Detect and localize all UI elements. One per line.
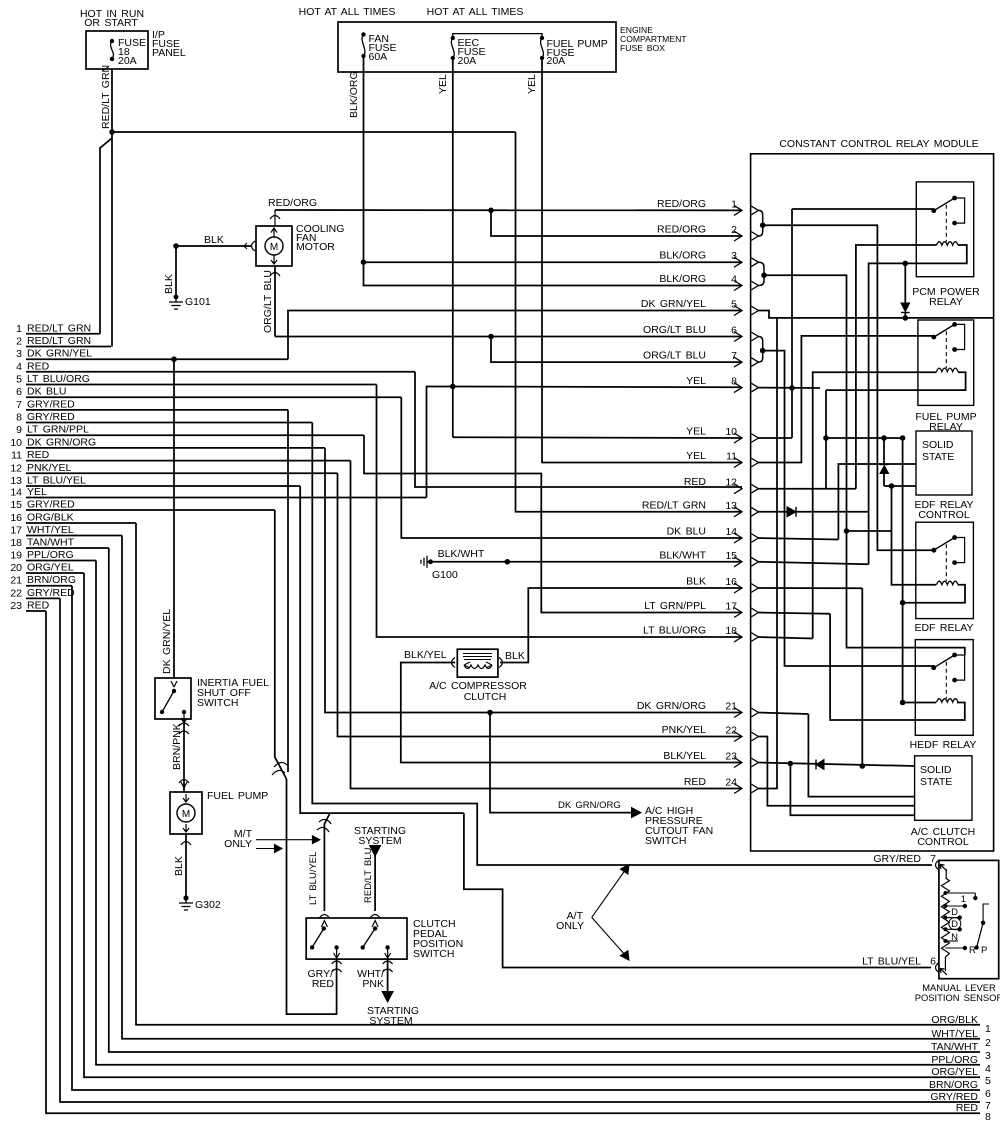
cooling fan motor M1	[256, 226, 292, 266]
wire BLK a/c clutch to CCRM pin 16	[500, 588, 742, 663]
svg-text:WHT/YEL: WHT/YEL	[931, 1028, 978, 1040]
pin 2 RED/ORG arrow	[734, 231, 742, 241]
wire PNK/YEL row12 to CCRM pin 22	[338, 473, 743, 736]
wire GRY/RED row22 to bottom output 7	[60, 598, 980, 1102]
svg-text:SYSTEM: SYSTEM	[369, 1015, 412, 1027]
sensor taps and contacts	[943, 891, 947, 895]
svg-text:BLK/ORG: BLK/ORG	[659, 273, 706, 285]
svg-text:CONTROL: CONTROL	[917, 836, 968, 848]
wire YEL from EEC fuse down	[452, 58, 454, 387]
svg-text:YEL: YEL	[686, 450, 706, 462]
wire break GRY/RED M/T connector	[274, 762, 287, 767]
sensor selector arm	[974, 945, 978, 949]
pin 18 LT BLU/ORG arrow	[734, 632, 742, 642]
svg-text:5: 5	[16, 374, 22, 386]
wire BLK/WHT G100 to CCRM pin 15	[431, 561, 742, 563]
svg-text:DK GRN/ORG: DK GRN/ORG	[27, 436, 96, 448]
svg-text:10: 10	[725, 426, 737, 438]
svg-text:SWITCH: SWITCH	[197, 697, 238, 709]
svg-text:5: 5	[985, 1075, 991, 1087]
svg-text:8: 8	[731, 376, 737, 388]
node junction pin 23 ground riser	[860, 763, 866, 769]
svg-text:RED: RED	[956, 1102, 979, 1114]
wire BLK/YEL to CCRM pin 23	[401, 663, 742, 763]
node junction RED/LT GRN	[109, 129, 115, 135]
wire BLK/ORG from fan fuse down	[363, 56, 365, 262]
svg-text:10: 10	[10, 437, 22, 449]
pin 21 DK GRN/ORG arrow	[734, 708, 742, 718]
wire branch to EDF relay coil	[847, 530, 892, 532]
wire ORG/LT BLU to CCRM pin 6	[275, 336, 742, 338]
node junction YEL EEC	[450, 384, 456, 390]
wire pin 13 and pin 15 riser to PCM coil return	[869, 245, 967, 564]
svg-text:1: 1	[961, 894, 966, 905]
svg-text:DK GRN/ORG: DK GRN/ORG	[637, 700, 706, 712]
wire pin 5 DK GRN/YEL bus	[759, 311, 994, 318]
svg-text:LT BLU/ORG: LT BLU/ORG	[643, 625, 706, 637]
diode CR3 EDF control feed	[883, 438, 885, 465]
pin 22 PNK/YEL arrow	[734, 732, 742, 742]
wire RED row4 to CCRM pin 12	[415, 372, 742, 487]
svg-text:ORG/BLK: ORG/BLK	[27, 512, 74, 524]
svg-text:M: M	[182, 809, 190, 820]
svg-text:BLK: BLK	[505, 650, 525, 662]
wire BLK/ORG pin 3 line	[364, 261, 743, 263]
svg-text:ORG/LT BLU: ORG/LT BLU	[262, 270, 274, 333]
svg-text:6: 6	[985, 1088, 991, 1100]
svg-text:20A: 20A	[547, 55, 566, 67]
wire branch to connector row 1	[100, 138, 112, 334]
wire DK GRN/ORG to A/C high pressure cutout fan switch	[490, 713, 556, 813]
svg-text:13: 13	[725, 500, 737, 512]
node splice BLK/WHT	[505, 559, 511, 565]
svg-text:RED/ORG: RED/ORG	[657, 198, 706, 210]
svg-text:LT BLU/YEL: LT BLU/YEL	[27, 475, 86, 487]
svg-text:HOT AT ALL TIMES: HOT AT ALL TIMES	[299, 6, 396, 18]
svg-text:DK GRN/YEL: DK GRN/YEL	[161, 609, 173, 674]
svg-text:17: 17	[725, 601, 737, 613]
svg-text:GRY/RED: GRY/RED	[27, 398, 75, 410]
svg-text:13: 13	[10, 475, 22, 487]
wire pin 23 branch to A/C clutch control lower input	[790, 764, 914, 816]
svg-text:6: 6	[930, 956, 936, 968]
svg-text:18: 18	[725, 625, 737, 637]
node junction EDF relay common	[932, 548, 937, 553]
wire BLK down to ground	[175, 246, 177, 296]
node junction pins 6-7	[760, 348, 766, 354]
svg-text:20: 20	[10, 562, 22, 574]
pin 10 YEL arrow	[734, 433, 742, 443]
svg-text:STATE: STATE	[922, 451, 954, 463]
svg-text:ORG/YEL: ORG/YEL	[931, 1066, 978, 1078]
svg-text:RED/LT GRN: RED/LT GRN	[27, 322, 91, 334]
wire YEL EEC to CCRM pin 8	[453, 386, 742, 389]
wire GRY/RED row7 down to M/T break	[287, 410, 289, 772]
relay K1 PCM POWER RELAY	[916, 182, 973, 277]
svg-text:11: 11	[11, 450, 22, 462]
wire YEL from fuel pump fuse down to pin 11 level	[542, 58, 742, 463]
svg-text:TAN/WHT: TAN/WHT	[27, 537, 75, 549]
svg-text:STATE: STATE	[920, 776, 952, 788]
wire pin 24 riser	[759, 318, 778, 789]
svg-text:DK BLU: DK BLU	[27, 386, 66, 398]
node junction diode branch	[881, 435, 887, 441]
pin 7 ORG/LT BLU arrow	[734, 357, 742, 367]
wire resistor bottom to pin 6 entry	[944, 957, 946, 971]
svg-text:5: 5	[731, 299, 737, 311]
wire pins 3-4 bracket	[759, 262, 765, 285]
wire BLK/ORG trunk down to HEDF contact	[764, 275, 965, 655]
svg-text:DK GRN/YEL: DK GRN/YEL	[641, 298, 706, 310]
svg-text:BLK/ORG: BLK/ORG	[659, 250, 706, 262]
I/P fuse panel box	[86, 31, 148, 69]
diode CR4 on pin 23 line	[816, 760, 824, 770]
svg-text:RED: RED	[684, 476, 707, 488]
svg-text:YEL: YEL	[27, 486, 47, 498]
node junction pins 1-2	[760, 222, 766, 228]
pin 3 BLK/ORG arrow	[734, 257, 742, 267]
wire DK GRN/YEL row3 up to CCRM pin 5	[288, 311, 742, 360]
svg-text:PPL/ORG: PPL/ORG	[931, 1054, 978, 1066]
node junction ORG/LT BLU	[488, 334, 494, 340]
wire LT BLU/YEL branch to clutch pedal switch	[324, 813, 330, 911]
svg-text:RED: RED	[27, 360, 50, 372]
wire pin 16 interior to A/C clutch control	[759, 587, 863, 589]
fuse EEC FUSE 20A	[451, 36, 455, 40]
wire LT GRN/PPL row9 to CCRM pin 17	[364, 435, 742, 612]
wire fuel pump relay coil return	[826, 372, 966, 390]
svg-text:RED: RED	[684, 776, 707, 788]
svg-text:N: N	[951, 932, 958, 943]
svg-text:SOLID: SOLID	[920, 764, 952, 776]
wire pin 22 to A/C clutch control	[759, 737, 915, 806]
pin 23 BLK/YEL arrow	[734, 758, 742, 768]
pin 14 DK BLU arrow	[734, 533, 742, 543]
svg-text:PPL/ORG: PPL/ORG	[27, 549, 74, 561]
fuse Fuse-18 20A symbol	[110, 39, 114, 43]
wire YEL EEC down to pin 10 level	[452, 387, 454, 438]
wire pin 23 BLK/YEL to A/C clutch control	[759, 763, 915, 767]
wire LT BLU/YEL row13 down and right	[300, 486, 464, 813]
svg-text:12: 12	[725, 477, 737, 489]
wire DK GRN/ORG row10 to CCRM pin 21	[325, 448, 742, 713]
wire PCM relay common from pins 8 and 10	[792, 208, 934, 210]
svg-text:ONLY: ONLY	[556, 920, 584, 932]
svg-text:BLK/YEL: BLK/YEL	[404, 649, 447, 661]
wire RED/LT GRN from fuse 18 down to junction	[111, 69, 113, 132]
node junction BLK/ORG pin3	[361, 259, 367, 265]
a/c compressor clutch L1	[457, 649, 498, 677]
wire BLK/ORG down to pin 4 level then right	[364, 262, 743, 285]
wire TAN/WHT row18 to bottom output 3	[109, 548, 980, 1052]
wire ORG/LT BLU branch to pin 7	[491, 337, 742, 363]
wire RED/ORG trunk to EDF relay common	[763, 225, 934, 550]
wire LT BLU/ORG row5 to CCRM pin 18	[377, 385, 743, 638]
svg-text:GRY/RED: GRY/RED	[27, 411, 75, 423]
node junction HEDF relay common	[931, 665, 936, 670]
node junction coil supply bus	[823, 435, 829, 441]
svg-text:3: 3	[985, 1050, 991, 1062]
svg-text:YEL: YEL	[526, 74, 538, 94]
svg-text:ORG/LT BLU: ORG/LT BLU	[643, 324, 706, 336]
svg-text:LT BLU/ORG: LT BLU/ORG	[27, 373, 90, 385]
svg-text:3: 3	[16, 348, 22, 360]
ground G101	[174, 295, 179, 300]
svg-text:LT GRN/PPL: LT GRN/PPL	[27, 424, 89, 436]
wire RED/LT GRN riser down to pin 13 level	[516, 132, 743, 512]
fuel pump M2	[181, 782, 187, 788]
arrow M/T to LT BLU/YEL wire	[256, 839, 314, 841]
svg-text:60A: 60A	[369, 51, 388, 63]
wire pin 10 YEL interior	[759, 437, 793, 439]
svg-text:8: 8	[985, 1111, 991, 1123]
solid state A/C clutch control U3	[915, 756, 972, 821]
ground G100	[421, 556, 427, 568]
node junction pin 8 PCM common	[789, 385, 795, 391]
svg-text:RED/ORG: RED/ORG	[657, 224, 706, 236]
pin 13 RED/LT GRN arrow	[734, 507, 742, 517]
svg-text:BRN/ORG: BRN/ORG	[27, 574, 76, 586]
svg-text:14: 14	[725, 526, 737, 538]
svg-text:FUEL PUMP: FUEL PUMP	[207, 790, 268, 802]
svg-text:1: 1	[731, 198, 737, 210]
constant control relay module box U1	[751, 154, 994, 851]
svg-text:RED: RED	[27, 600, 50, 612]
svg-text:21: 21	[725, 701, 737, 713]
wire YEL riser to EDF and HEDF coils	[902, 438, 904, 703]
wire GRY/RED row15 down and slant join	[275, 510, 287, 779]
svg-text:GRY/RED: GRY/RED	[873, 853, 921, 865]
wire WHT/PNK to starting system	[387, 959, 389, 996]
svg-text:23: 23	[10, 600, 22, 612]
wire ORG/LT BLU trunk to HEDF relay common	[763, 351, 934, 666]
svg-text:WHT/YEL: WHT/YEL	[27, 524, 74, 536]
wire BRN/PNK inertia switch to fuel pump	[183, 719, 185, 792]
pin 11 YEL arrow	[734, 458, 742, 468]
node junction EDF coil riser	[889, 483, 895, 489]
svg-text:CONTROL: CONTROL	[918, 509, 969, 521]
node junction DK GRN/YEL row3	[171, 356, 177, 362]
solid state EDF relay control U2	[916, 431, 972, 495]
svg-text:21: 21	[10, 575, 22, 587]
node junction EDF coil return	[900, 600, 906, 606]
wire RED/ORG branch down to pin 2	[491, 210, 742, 236]
node junction pin 23 branch	[788, 761, 794, 767]
svg-text:2: 2	[731, 224, 737, 236]
svg-text:LT GRN/PPL: LT GRN/PPL	[644, 600, 706, 612]
wire break LT BLU/YEL M/T connector	[319, 819, 331, 824]
pin 8 YEL arrow	[734, 383, 742, 393]
manual lever position sensor box	[939, 860, 999, 978]
pin 5 DK GRN/YEL arrow	[734, 306, 742, 316]
wire GRY/RED to clutch pedal switch	[287, 779, 337, 1014]
wire pin 11 YEL to fuel pump relay common	[759, 336, 934, 463]
wire pin 21 riser to A/C clutch control	[759, 713, 809, 715]
wire branch to connector row 2	[111, 132, 113, 347]
wire GRY/RED from clutch switch	[336, 959, 338, 966]
svg-text:DK BLU: DK BLU	[667, 526, 706, 538]
svg-text:DK GRN/YEL: DK GRN/YEL	[27, 348, 92, 360]
svg-text:15: 15	[725, 550, 737, 562]
pin 1 RED/ORG arrow	[734, 205, 742, 215]
resistor ladder manual lever position sensor	[945, 869, 947, 878]
svg-text:14: 14	[10, 487, 22, 499]
wire ORG/YEL row20 to bottom output 5	[84, 573, 980, 1077]
wire break motor top	[270, 216, 280, 220]
svg-text:EDF RELAY: EDF RELAY	[914, 622, 973, 634]
svg-text:4: 4	[16, 361, 22, 373]
svg-text:19: 19	[10, 550, 22, 562]
pin 6 ORG/LT BLU arrow	[734, 332, 742, 342]
svg-text:16: 16	[10, 512, 22, 524]
svg-text:HEDF RELAY: HEDF RELAY	[910, 739, 977, 751]
wire RED/LT BLU from starting system to clutch switch	[370, 846, 381, 857]
wire LT BLU/YEL to manual lever position sensor pin 6	[464, 813, 931, 967]
wire EDF coil return	[903, 585, 965, 603]
svg-text:TAN/WHT: TAN/WHT	[931, 1041, 979, 1053]
wire RED row11 to CCRM pin 24	[351, 461, 743, 789]
wire bus linking EEC and fuel pump fuse tops	[453, 34, 542, 38]
wire GRY/RED row8 to manual lever position sensor pin 7	[312, 423, 932, 866]
wire pin 13 interior	[759, 511, 869, 513]
svg-text:23: 23	[725, 751, 737, 763]
node junction HEDF coil left	[900, 700, 906, 706]
svg-text:2: 2	[985, 1037, 991, 1049]
svg-text:20A: 20A	[458, 55, 477, 67]
pin 17 LT GRN/PPL arrow	[734, 608, 742, 618]
arrow entry GRY/RED into sensor	[940, 865, 947, 872]
svg-text:12: 12	[10, 462, 22, 474]
svg-text:RELAY: RELAY	[929, 296, 963, 308]
pin 12 RED arrow	[734, 484, 742, 494]
svg-text:RED/LT GRN: RED/LT GRN	[642, 499, 706, 511]
wire BLK into motor left	[176, 245, 252, 247]
svg-text:PNK: PNK	[362, 978, 384, 990]
svg-text:18: 18	[10, 537, 22, 549]
wire pins 1-2 bracket	[759, 210, 763, 236]
node junction RED/ORG	[488, 208, 494, 214]
ground G302	[183, 895, 188, 900]
svg-text:8: 8	[16, 412, 22, 424]
svg-text:3: 3	[731, 250, 737, 262]
wire pin 12 to PCM relay coil riser	[759, 488, 856, 490]
relay K4 HEDF RELAY	[915, 640, 973, 736]
svg-text:17: 17	[10, 525, 22, 537]
wire DK GRN/YEL down to inertia switch	[173, 359, 175, 678]
wire HEDF coil left stub	[901, 702, 936, 704]
svg-text:BLK/WHT: BLK/WHT	[438, 548, 485, 560]
arrow A/T to GRY/RED wire	[592, 869, 626, 917]
svg-text:SWITCH: SWITCH	[645, 835, 686, 847]
svg-text:11: 11	[726, 451, 737, 463]
wire RED/LT GRN junction to right toward CCRM pin 13 riser	[112, 131, 516, 133]
svg-text:ORG/LT BLU: ORG/LT BLU	[643, 350, 706, 362]
relay K3 EDF RELAY	[916, 522, 974, 618]
svg-text:RED: RED	[312, 978, 335, 990]
svg-text:BRN/PNK: BRN/PNK	[171, 723, 183, 770]
wire EDF coil left riser	[892, 486, 937, 585]
wire pins 6-7 bracket	[759, 337, 763, 363]
pin 24 RED arrow	[734, 784, 742, 794]
svg-text:16: 16	[725, 576, 737, 588]
arrow M/T to GRY/RED wire	[256, 848, 276, 850]
svg-text:SOLID: SOLID	[922, 439, 954, 451]
inertia fuel shut off switch S1	[171, 681, 177, 687]
svg-text:RED: RED	[27, 449, 50, 461]
diode CR1 on pin 13 line	[787, 507, 796, 517]
wire BLK fuel pump to ground	[185, 834, 187, 898]
relay K2 FUEL PUMP RELAY	[918, 320, 974, 405]
node junction pins 3-4	[761, 272, 767, 278]
svg-text:BLK/WHT: BLK/WHT	[659, 549, 706, 561]
svg-text:7: 7	[985, 1100, 991, 1112]
pin 15 BLK/WHT arrow	[734, 557, 742, 567]
svg-text:RED/LT GRN: RED/LT GRN	[100, 65, 112, 129]
svg-text:ORG/YEL: ORG/YEL	[27, 562, 74, 574]
pin 16 BLK arrow	[734, 583, 742, 593]
arrow entry LT BLU/YEL into sensor	[940, 969, 947, 976]
node junction pin 5 bus	[903, 315, 909, 321]
svg-text:1: 1	[16, 323, 22, 335]
svg-text:BLK/ORG: BLK/ORG	[348, 71, 360, 118]
svg-text:DK GRN/ORG: DK GRN/ORG	[558, 800, 621, 811]
wire pin 8 YEL interior	[759, 387, 821, 389]
svg-text:GRY/RED: GRY/RED	[27, 587, 75, 599]
svg-text:POSITION SENSOR: POSITION SENSOR	[915, 992, 1000, 1003]
wire RED/ORG motor to CCRM pin 1	[275, 209, 742, 211]
wire pin 17 to HEDF coil return	[759, 613, 831, 614]
svg-text:GRY/RED: GRY/RED	[930, 1091, 978, 1103]
svg-text:4: 4	[731, 274, 737, 286]
node junction BLK/ORG EDF coil branch	[844, 528, 850, 534]
wire RED row23 to bottom output 8	[46, 611, 980, 1113]
svg-text:BLK: BLK	[163, 274, 175, 294]
svg-text:22: 22	[725, 725, 737, 737]
svg-text:PNK/YEL: PNK/YEL	[27, 462, 72, 474]
svg-text:6: 6	[16, 386, 22, 398]
svg-text:BLK: BLK	[173, 856, 185, 876]
svg-text:4: 4	[985, 1063, 991, 1075]
svg-text:BLK: BLK	[204, 234, 224, 246]
wire YEL row14 riser to EEC junction	[427, 387, 453, 498]
svg-text:D: D	[951, 907, 958, 918]
svg-text:SWITCH: SWITCH	[413, 948, 454, 960]
svg-text:PANEL: PANEL	[152, 47, 186, 59]
svg-text:BRN/ORG: BRN/ORG	[929, 1079, 978, 1091]
wire DK BLU row6 to CCRM pin 14	[401, 397, 742, 538]
pin 4 BLK/ORG arrow	[734, 281, 742, 291]
wire pin 14 DK BLU to EDF relay control	[759, 538, 839, 540]
svg-text:YEL: YEL	[686, 426, 706, 438]
engine compartment fuse box	[338, 22, 616, 72]
svg-text:RED/ORG: RED/ORG	[268, 197, 317, 209]
svg-text:M: M	[270, 242, 278, 253]
svg-text:GRY/RED: GRY/RED	[27, 499, 75, 511]
svg-text:22: 22	[10, 587, 22, 599]
svg-text:G100: G100	[432, 569, 458, 581]
wire pin 18 riser to fuel pump relay coil	[759, 637, 813, 639]
svg-text:RED/LT BLU: RED/LT BLU	[363, 847, 374, 903]
wire coil supply bus horizontal	[826, 437, 903, 439]
svg-text:HOT AT ALL TIMES: HOT AT ALL TIMES	[427, 6, 524, 18]
svg-text:24: 24	[725, 777, 737, 789]
svg-text:D: D	[951, 919, 958, 930]
svg-text:15: 15	[10, 499, 22, 511]
svg-text:20A: 20A	[118, 55, 137, 67]
svg-text:G101: G101	[185, 296, 211, 308]
svg-text:ORG/BLK: ORG/BLK	[931, 1014, 978, 1026]
svg-text:MOTOR: MOTOR	[296, 241, 335, 253]
